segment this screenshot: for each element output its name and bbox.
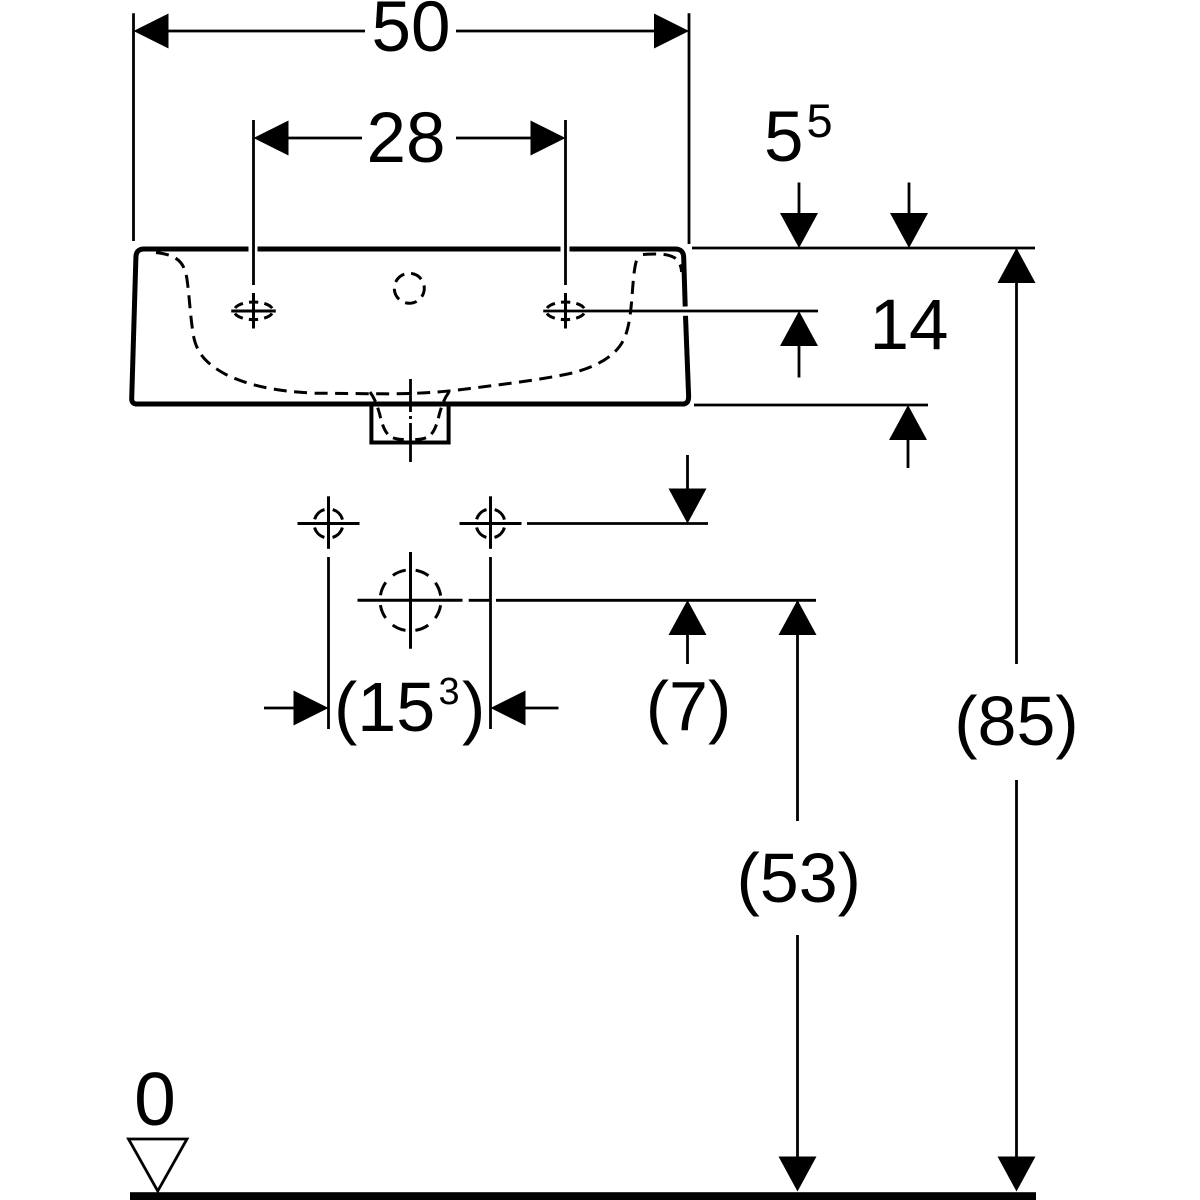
basin rim segment right (570, 247, 676, 252)
arrowheads (134, 14, 1036, 1192)
drain level reference line segment a (469, 599, 490, 602)
inner bowl dashed contour (156, 253, 639, 394)
cross marks (231, 293, 565, 649)
basin rim segment middle (258, 247, 561, 252)
drain funnel right dashed curve (415, 392, 449, 440)
dimension 53 line lower segment (796, 935, 799, 1158)
dimension 28 right extension line (564, 120, 567, 285)
dimension 5.5 up-arrow tail (798, 345, 801, 378)
dimension 28 left extension line (252, 120, 255, 285)
drain trap cross horizontal (358, 599, 463, 602)
washbasin outline (132, 249, 689, 443)
dimension 28 left arrowhead (254, 121, 289, 156)
dimension 85 down arrowhead (998, 1157, 1036, 1192)
left fixing hole cross horizontal (298, 522, 360, 525)
right tap hole dashed ellipse (546, 302, 585, 320)
dimension 5.5 down arrowhead (780, 213, 818, 248)
right fixing hole cross horizontal (460, 522, 522, 525)
dimension 7 up-arrow tail (686, 634, 689, 664)
basin rim segment left (144, 247, 249, 252)
dimension 50 line left segment (166, 30, 365, 33)
right fixing hole dashed circle (476, 509, 505, 538)
dimension 85 line upper segment (1015, 250, 1018, 664)
fixing holes reference line (7 upper reference) (527, 522, 708, 525)
dimension 15.3 right tail (523, 707, 559, 710)
svg-text:5: 5 (764, 98, 804, 177)
dimension 7 down arrowhead (669, 489, 707, 524)
drain funnel left dashed curve (370, 392, 404, 440)
basin left side with corners (132, 249, 144, 404)
overflow hole dashed circle (394, 273, 424, 303)
drain centerline through outlet (409, 379, 412, 462)
dimension 53 up arrowhead (779, 600, 817, 635)
basin right side upper (675, 249, 685, 307)
drain level reference line segment b (496, 599, 816, 602)
svg-text:(53): (53) (736, 839, 860, 917)
dimension 28 right arrowhead (531, 121, 566, 156)
left tap hole cross vertical (252, 293, 255, 329)
dimension 15.3 left tail (264, 707, 296, 710)
right tap hole cross vertical (564, 293, 567, 329)
dimension 14 up arrowhead (889, 405, 927, 440)
dimension 15.3 right-pointing arrowhead (294, 691, 329, 726)
dimension 28 line right segment (456, 137, 533, 140)
dimension 85 line lower segment (1015, 780, 1018, 1158)
svg-text:14: 14 (870, 286, 949, 365)
drain trap cross vertical (409, 552, 412, 649)
left tap hole dashed ellipse (234, 302, 273, 320)
drain outlet box (371, 403, 448, 443)
right fixing hole cross vertical (489, 496, 492, 549)
drain trap dashed circle (380, 570, 441, 631)
dimension 5.5 up arrowhead (780, 311, 818, 346)
left fixing hole cross vertical (327, 496, 330, 549)
datum triangle (129, 1139, 188, 1191)
svg-text:3: 3 (439, 671, 460, 713)
basin bottom edge (135, 402, 685, 407)
dimension 7 up arrowhead (669, 600, 707, 635)
inner bowl contour top-right corner dashes (643, 254, 682, 272)
svg-text:(15: (15 (334, 668, 435, 746)
top reference line (basin rim level) (692, 247, 1035, 250)
svg-text:): ) (462, 668, 485, 746)
dashed inner details (156, 253, 682, 631)
dimension 50 line right segment (456, 30, 657, 33)
dimension 53 line upper segment (796, 602, 799, 821)
dimension 5.5 down-arrow tail (798, 183, 801, 217)
dimension 14 down-arrow tail (908, 183, 911, 217)
svg-text:(85): (85) (954, 682, 1078, 760)
basin bottom reference line (14 lower reference) (694, 404, 928, 407)
svg-text:50: 50 (372, 0, 451, 67)
dimension 50 left arrowhead (134, 14, 169, 49)
dimension 7 down-arrow tail (686, 455, 689, 490)
svg-text:(7): (7) (646, 667, 732, 745)
dimension 15.3 left-pointing arrowhead (491, 691, 526, 726)
svg-text:0: 0 (134, 1057, 176, 1141)
dimension 14 up-arrow tail (907, 439, 910, 468)
dimension 28 line left segment (286, 137, 362, 140)
dimension 85 up arrowhead (998, 248, 1036, 283)
tap hole leader line (5.5 lower reference) (543, 310, 818, 313)
svg-text:28: 28 (367, 99, 446, 178)
basin right side lower (683, 316, 689, 404)
dimension 53 down arrowhead (779, 1157, 817, 1192)
left fixing hole dashed circle (314, 509, 343, 538)
left fixing hole extension line (327, 557, 330, 729)
dimension 14 down arrowhead (890, 213, 928, 248)
right fixing hole extension line (489, 557, 492, 729)
dimension 50 right extension line (688, 13, 691, 244)
left tap hole cross horizontal (231, 310, 276, 313)
svg-text:5: 5 (807, 94, 833, 147)
dimension 50 right arrowhead (654, 14, 689, 49)
dimension 50 left extension line (132, 13, 135, 241)
floor line (130, 1192, 1036, 1200)
